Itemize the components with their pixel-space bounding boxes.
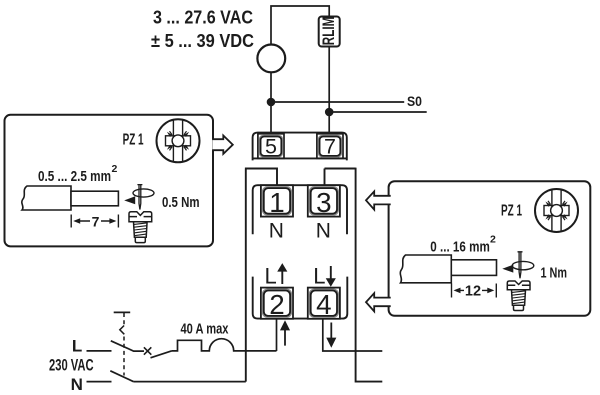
svg-text:2: 2: [269, 289, 284, 320]
terminal 1: [261, 185, 293, 218]
svg-text:N: N: [71, 375, 83, 394]
wire N in: [87, 381, 112, 383]
svg-text:N: N: [316, 219, 331, 242]
contact cross: [144, 347, 151, 354]
svg-text:4: 4: [316, 289, 331, 320]
svg-text:7: 7: [324, 134, 336, 158]
svg-text:0.5 ... 2.5 mm: 0.5 ... 2.5 mm: [38, 169, 111, 185]
switch blade L: [111, 341, 144, 351]
svg-text:0.5 Nm: 0.5 Nm: [162, 195, 200, 211]
wire terminal 2 down: [276, 319, 278, 351]
terminal 7: [317, 134, 343, 159]
wire top loop: [271, 6, 329, 45]
wire circle to junction: [270, 72, 272, 102]
fuse 40A and wire to terminal 2: [172, 339, 277, 351]
device housing outline: [245, 168, 382, 382]
wire junction A to terminal 5: [270, 102, 272, 133]
svg-text:S0: S0: [407, 93, 422, 109]
arrow down below terminal 4: [328, 323, 335, 346]
svg-text:L: L: [313, 263, 325, 288]
terminal 2: [261, 288, 293, 320]
switch linkage bar: [114, 311, 131, 313]
svg-text:5: 5: [265, 134, 277, 158]
wire junction B to terminal 7: [328, 112, 330, 133]
svg-text:± 5 ... 39 VDC: ± 5 ... 39 VDC: [151, 31, 254, 51]
wire S0 upper: [271, 101, 404, 103]
pozidriv bit icon right: [535, 189, 578, 232]
switch blade N: [110, 371, 133, 382]
info box right: [389, 181, 591, 316]
wire RLIM to junction: [328, 47, 330, 113]
svg-text:2: 2: [112, 163, 118, 175]
svg-text:1: 1: [269, 187, 284, 218]
linkage kink: [120, 326, 125, 335]
cable conductor icon right: [451, 260, 496, 276]
terminal row 2-4 pocket: [253, 277, 348, 319]
arrow out of right box lower: [366, 293, 391, 311]
cable insulation icon left: [22, 186, 71, 210]
svg-text:L: L: [72, 336, 82, 355]
info box left: [5, 115, 214, 247]
cable conductor icon left: [71, 191, 118, 206]
junction dot B: [325, 108, 334, 117]
svg-text:PZ 1: PZ 1: [123, 132, 144, 149]
svg-text:12: 12: [465, 283, 481, 299]
wire S0 lower: [329, 111, 427, 113]
terminal 4: [308, 288, 340, 320]
svg-text:0 ... 16 mm: 0 ... 16 mm: [430, 239, 490, 255]
screwdriver torque icon right: [502, 252, 534, 278]
cable insulation icon right: [400, 255, 451, 283]
svg-text:RLIM: RLIM: [319, 17, 338, 46]
arrow down small: [327, 266, 334, 285]
switch linkage dashed lower: [123, 337, 125, 376]
arrow out of left box: [212, 136, 233, 154]
pozidriv bit icon left: [157, 119, 200, 162]
wire L in: [87, 350, 112, 352]
svg-text:230 VAC: 230 VAC: [49, 355, 94, 374]
screw icon right: [507, 281, 530, 311]
wire terminal 4 down and out: [323, 319, 383, 351]
wire N to device: [134, 381, 246, 383]
terminal row 1-3 pocket: [253, 185, 347, 234]
dimension 12: [452, 283, 497, 299]
switch linkage dashed: [123, 313, 125, 326]
svg-text:40 A max: 40 A max: [181, 322, 229, 338]
terminal 3: [308, 185, 340, 218]
screw icon left: [129, 212, 152, 243]
svg-text:PZ 1: PZ 1: [501, 203, 522, 220]
arrow up small: [279, 265, 286, 284]
svg-text:3 ... 27.6 VAC: 3 ... 27.6 VAC: [153, 7, 253, 27]
switch-fuse blade: [151, 351, 172, 358]
dimension 7: [71, 213, 118, 229]
svg-text:3: 3: [316, 187, 331, 218]
svg-text:2: 2: [490, 234, 496, 246]
svg-text:1 Nm: 1 Nm: [541, 265, 568, 281]
svg-text:N: N: [269, 219, 284, 242]
arrow out of right box upper: [366, 191, 391, 209]
svg-text:7: 7: [92, 213, 100, 229]
S0 terminal block housing: [253, 133, 347, 161]
svg-text:L: L: [265, 263, 277, 288]
terminal 5: [258, 134, 284, 159]
junction dot A: [267, 98, 276, 107]
arrow up below terminal 2: [281, 322, 288, 345]
voltage source circle: [257, 45, 285, 73]
screwdriver torque icon left: [124, 185, 154, 210]
resistor RLIM: [319, 17, 340, 47]
